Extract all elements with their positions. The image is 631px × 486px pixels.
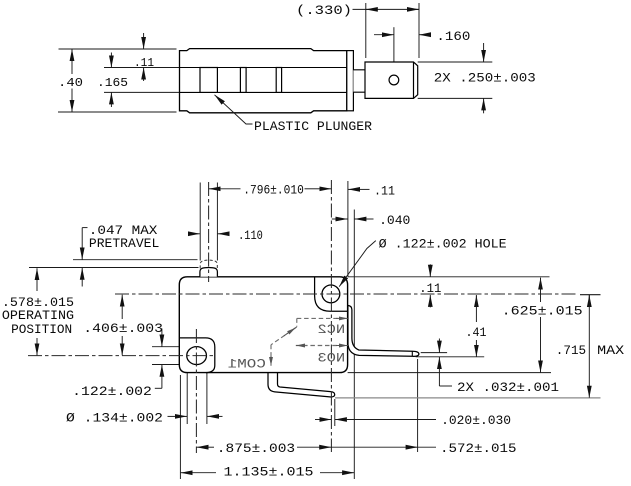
svg-text:Ø .122±.002 HOLE: Ø .122±.002 HOLE (379, 236, 507, 251)
svg-text:.41: .41 (466, 325, 487, 340)
svg-text:.020±.030: .020±.030 (441, 413, 511, 428)
svg-text:PRETRAVEL: PRETRAVEL (89, 236, 159, 251)
svg-text:NO3: NO3 (317, 351, 345, 366)
svg-text:2X .032±.001: 2X .032±.001 (457, 380, 559, 395)
svg-text:.160: .160 (436, 29, 470, 44)
svg-text:2X .250±.003: 2X .250±.003 (434, 70, 536, 85)
svg-text:.796±.010: .796±.010 (243, 183, 303, 198)
svg-text:POSITION: POSITION (11, 322, 72, 337)
svg-text:OPERATING: OPERATING (2, 308, 74, 323)
svg-text:.572±.015: .572±.015 (440, 441, 517, 456)
svg-text:.122±.002: .122±.002 (72, 384, 152, 399)
svg-text:COM1: COM1 (227, 356, 265, 371)
svg-text:.11: .11 (419, 281, 441, 296)
svg-text:.875±.003: .875±.003 (217, 441, 295, 456)
svg-text:.165: .165 (97, 76, 128, 90)
svg-text:.11: .11 (374, 183, 395, 198)
svg-text:NC2: NC2 (317, 322, 345, 337)
svg-text:MAX: MAX (597, 343, 624, 358)
svg-text:.40: .40 (58, 76, 83, 90)
svg-text:PLASTIC PLUNGER: PLASTIC PLUNGER (254, 119, 372, 134)
svg-text:.110: .110 (238, 228, 263, 243)
svg-text:.406±.003: .406±.003 (83, 321, 163, 336)
svg-text:.11: .11 (134, 56, 154, 70)
svg-text:1.135±.015: 1.135±.015 (224, 465, 314, 480)
svg-text:Ø .134±.002: Ø .134±.002 (66, 410, 163, 425)
svg-text:.040: .040 (379, 213, 410, 228)
svg-text:.625±.015: .625±.015 (502, 303, 583, 318)
svg-text:.715: .715 (556, 343, 586, 358)
svg-text:(.330): (.330) (296, 3, 352, 18)
